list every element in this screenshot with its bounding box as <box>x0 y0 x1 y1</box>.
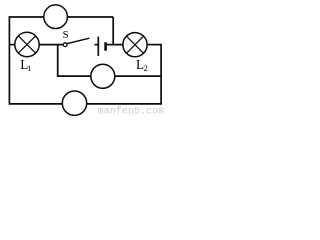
wire top-left segment <box>9 16 44 18</box>
wire top-right segment <box>67 16 113 18</box>
switch S (open) <box>63 38 89 46</box>
wire switch to battery <box>95 44 99 46</box>
svg-text:L1: L1 <box>20 57 31 73</box>
svg-text:L2: L2 <box>136 57 148 73</box>
wire bottom right segment <box>87 103 161 105</box>
meter M3 (blank circle, bottom branch) <box>62 91 86 115</box>
wire middle branch right segment <box>115 75 161 77</box>
wire L1 to switch <box>39 44 63 46</box>
wire battery to L2 (through junction with top branch) <box>107 44 123 46</box>
wire vertical from top branch down to battery node <box>112 17 114 45</box>
wire middle branch left segment <box>57 75 91 77</box>
wire middle branch vertical tap <box>57 45 59 77</box>
lamp L1 <box>15 32 39 56</box>
lamp L2 <box>123 33 147 57</box>
svg-text:S: S <box>63 30 69 41</box>
meter M1 (blank circle, top branch) <box>44 5 68 29</box>
svg-text:manfen5.com: manfen5.com <box>98 106 164 117</box>
wire left side vertical <box>8 16 10 105</box>
meter M2 (blank circle, middle branch) <box>91 64 115 88</box>
wire main row to L1 <box>9 44 15 46</box>
battery cell: short thick plate <box>104 42 107 50</box>
wire right side vertical <box>160 44 162 105</box>
wire bottom left segment <box>9 103 62 105</box>
wire L2 to right side <box>147 44 161 46</box>
battery cell: long plate <box>97 37 99 56</box>
